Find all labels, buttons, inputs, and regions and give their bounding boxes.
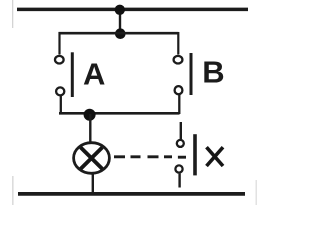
svg-text:A: A bbox=[83, 57, 105, 92]
svg-text:B: B bbox=[202, 54, 224, 89]
